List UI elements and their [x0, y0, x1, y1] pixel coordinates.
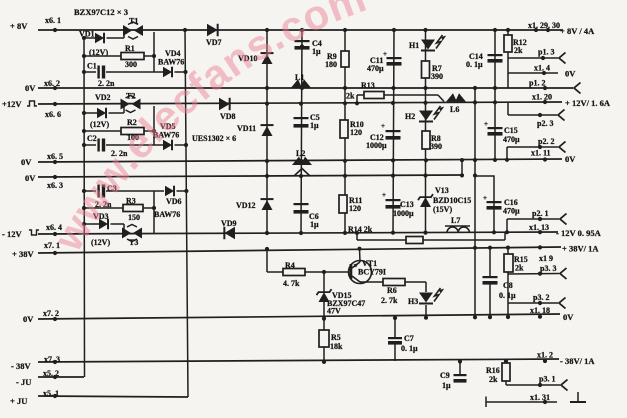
- svg-text:p2. 1: p2. 1: [532, 209, 548, 218]
- wire 0V rail B (x6.5 / x1.11): [38, 159, 562, 162]
- svg-text:R14 2k: R14 2k: [348, 225, 373, 234]
- diode VD3: [99, 219, 108, 230]
- svg-text:+12V: +12V: [2, 99, 22, 109]
- wire p2.3 stub: [507, 102, 509, 115]
- svg-text:R5: R5: [331, 333, 341, 342]
- LED H2: [419, 111, 433, 121]
- svg-text:(12V): (12V): [90, 120, 109, 129]
- svg-text:x1 9: x1 9: [539, 254, 553, 263]
- node x6.4: [53, 232, 57, 236]
- diode VD7: [207, 24, 218, 36]
- svg-text:BZD10C15: BZD10C15: [433, 196, 471, 205]
- svg-text:0V: 0V: [565, 154, 576, 164]
- svg-text:p3. 3: p3. 3: [540, 264, 556, 273]
- transformer T1: [123, 25, 132, 36]
- wire left snubber bus: [83, 38, 86, 377]
- svg-text:2. 7k: 2. 7k: [381, 296, 398, 305]
- svg-text:1μ: 1μ: [312, 47, 321, 56]
- svg-text:1000μ: 1000μ: [366, 141, 387, 150]
- wire C16 branch: [475, 176, 494, 233]
- connector p1.3: [559, 53, 566, 64]
- svg-text:0V: 0V: [23, 314, 34, 324]
- svg-text:BCY79I: BCY79I: [358, 268, 386, 277]
- svg-text:+ 8V / 4A: + 8V / 4A: [560, 26, 595, 36]
- connector p1.2: [574, 83, 581, 94]
- wire -12V rail: [38, 232, 558, 234]
- capacitor C9: [454, 374, 467, 376]
- svg-text:BAW76: BAW76: [158, 58, 184, 67]
- svg-text:0V: 0V: [565, 69, 576, 79]
- svg-text:C9: C9: [440, 371, 450, 380]
- wire rectifier bus VD10-VD12: [266, 30, 268, 234]
- resistor R5: [319, 330, 329, 347]
- node x7.1: [53, 251, 57, 255]
- transformer T2: [121, 99, 130, 110]
- svg-text:R16: R16: [486, 366, 500, 375]
- svg-text:L2: L2: [296, 149, 305, 158]
- svg-text:390: 390: [430, 142, 442, 151]
- wire p2.2 stub: [506, 147, 508, 160]
- svg-text:(15V): (15V): [433, 205, 452, 214]
- svg-text:x1. 11: x1. 11: [531, 149, 551, 158]
- svg-text:x1. 20: x1. 20: [532, 93, 552, 102]
- resistor R6: [383, 279, 405, 286]
- wire VD2 branch: [84, 112, 97, 114]
- svg-text:47V: 47V: [327, 307, 341, 316]
- wire -JU rail: [38, 376, 84, 378]
- svg-text:R3: R3: [126, 197, 136, 206]
- svg-text:VD12: VD12: [236, 201, 256, 210]
- wire C2 branch: [84, 144, 96, 146]
- diode VD1: [95, 33, 104, 44]
- svg-text:C15: C15: [504, 126, 518, 135]
- svg-text:VD9: VD9: [221, 219, 237, 228]
- svg-text:470μ: 470μ: [503, 207, 520, 216]
- wire -38V rail: [38, 359, 559, 362]
- svg-text:x6. 6: x6. 6: [45, 110, 61, 119]
- wire R4 branch: [266, 249, 268, 272]
- connector p2.2: [559, 142, 566, 153]
- svg-text:0. 1μ: 0. 1μ: [401, 344, 418, 353]
- svg-text:T1: T1: [129, 17, 138, 26]
- svg-text:VD11: VD11: [237, 124, 256, 133]
- wire cap bus C4-C6: [301, 30, 302, 234]
- wire R2 branch: [84, 130, 121, 132]
- svg-text:+ 38V/ 1A: + 38V/ 1A: [562, 244, 599, 254]
- resistor R3: [123, 205, 143, 212]
- svg-text:0. 1μ: 0. 1μ: [466, 60, 483, 69]
- wire T3 snubber right vertical: [153, 191, 155, 233]
- pulse symbol +12V: [27, 101, 37, 106]
- resistor R11: [339, 195, 347, 213]
- capacitor C16: [487, 201, 502, 203]
- wire p3.1 stub: [505, 359, 507, 363]
- svg-text:p1. 2: p1. 2: [529, 79, 545, 88]
- node x6.3: [53, 175, 57, 179]
- svg-text:x6. 5: x6. 5: [47, 152, 63, 161]
- capacitor C8: [483, 276, 498, 278]
- capacitor C11: [387, 57, 402, 59]
- wire 0V rail A (x6.2 / p1.2): [38, 87, 573, 89]
- svg-text:2k: 2k: [515, 264, 524, 273]
- svg-text:0V: 0V: [25, 173, 36, 183]
- wire p3.2 stub: [508, 302, 558, 304]
- resistor R7: [422, 61, 430, 78]
- svg-text:470μ: 470μ: [367, 64, 384, 73]
- svg-text:- JU: - JU: [16, 377, 31, 387]
- inductor L6: [446, 93, 466, 102]
- resistor R16: [502, 363, 510, 381]
- capacitor C14: [488, 54, 503, 56]
- resistor R14: [406, 237, 423, 244]
- LED H1: [421, 40, 435, 50]
- wire R13 branch: [356, 95, 358, 103]
- diode VD4: [163, 67, 172, 78]
- watermark www.elecfans.com: [77, 6, 379, 254]
- wire C7 branch: [394, 318, 396, 338]
- node x6.6: [53, 102, 57, 106]
- svg-text:1μ: 1μ: [442, 381, 451, 390]
- zener diode VD15: [319, 292, 330, 302]
- svg-text:C8: C8: [503, 281, 513, 290]
- resistor R9: [341, 51, 349, 67]
- capacitor C6: [294, 203, 309, 205]
- wire p1.3 stub: [508, 57, 558, 59]
- svg-text:+: +: [484, 120, 488, 128]
- diode VD6: [165, 186, 174, 197]
- capacitor C3: [97, 185, 99, 198]
- wire C1 branch: [84, 71, 96, 73]
- transformer T3: [122, 228, 131, 239]
- resistor R13: [364, 92, 384, 99]
- svg-text:4. 7k: 4. 7k: [283, 279, 300, 288]
- svg-text:p1. 3: p1. 3: [538, 48, 554, 57]
- diode VD8: [219, 98, 230, 110]
- diode VD11: [262, 126, 273, 136]
- svg-text:1μ: 1μ: [310, 220, 319, 229]
- wire C14-C15 bus: [494, 30, 496, 160]
- resistor R15: [504, 254, 513, 272]
- inductor L2: [292, 157, 312, 166]
- node x5.1: [53, 394, 57, 398]
- wire p3.3 stub: [507, 248, 509, 254]
- svg-text:0V: 0V: [25, 83, 36, 93]
- svg-text:x7. 2: x7. 2: [43, 309, 59, 318]
- svg-text:+ 8V: + 8V: [10, 21, 28, 31]
- diode VD5: [163, 140, 172, 151]
- wire x1.31 stub: [486, 401, 557, 403]
- resistor R4: [283, 269, 305, 276]
- wire R15 to 0V: [507, 274, 509, 314]
- wire 0V rail C (x6.3): [38, 175, 462, 177]
- resistor R12: [504, 35, 512, 52]
- wire C3 branch: [84, 190, 96, 192]
- connector p3.2: [559, 298, 566, 309]
- svg-text:p2. 3: p2. 3: [537, 119, 553, 128]
- svg-text:V13: V13: [435, 186, 449, 195]
- wire +12V rail: [38, 102, 562, 104]
- svg-text:+ 12V/ 1. 6A: + 12V/ 1. 6A: [565, 98, 611, 108]
- svg-text:R1: R1: [125, 44, 135, 53]
- svg-text:UES1302 × 6: UES1302 × 6: [192, 134, 236, 143]
- wire H3 to 0V: [425, 305, 427, 318]
- svg-text:2k: 2k: [489, 375, 498, 384]
- svg-text:18k: 18k: [330, 342, 343, 351]
- svg-text:L7: L7: [451, 216, 460, 225]
- svg-text:x7. 3: x7. 3: [44, 355, 60, 364]
- svg-text:C2: C2: [87, 134, 97, 143]
- capacitor C12: [386, 130, 401, 132]
- svg-text:p2. 2: p2. 2: [538, 137, 554, 146]
- resistor R8: [422, 131, 430, 149]
- wire resistor bus R9-R11: [344, 30, 346, 234]
- svg-text:R6: R6: [387, 286, 397, 295]
- inductor L1: [291, 79, 311, 88]
- svg-text:H3: H3: [408, 297, 418, 306]
- wire R1 branch: [84, 55, 121, 57]
- svg-text:1μ: 1μ: [310, 121, 319, 130]
- diode VD12: [262, 200, 273, 210]
- svg-text:180: 180: [325, 60, 337, 69]
- svg-text:BZX97C12 × 3: BZX97C12 × 3: [74, 7, 128, 17]
- svg-text:x6. 3: x6. 3: [47, 181, 63, 190]
- svg-text:+: +: [483, 194, 487, 202]
- svg-text:- 38V/ 1A: - 38V/ 1A: [560, 356, 595, 366]
- svg-text:0V: 0V: [563, 312, 574, 322]
- wire C8 branch: [489, 248, 491, 276]
- wire +JU rail: [38, 396, 188, 397]
- capacitor C15: [488, 127, 503, 129]
- svg-text:VD1: VD1: [79, 30, 95, 39]
- svg-text:- 12V 0. 95A: - 12V 0. 95A: [556, 228, 602, 238]
- svg-text:+: +: [381, 122, 385, 130]
- svg-text:120: 120: [350, 128, 362, 137]
- svg-text:x1. 4: x1. 4: [534, 64, 550, 73]
- wire R12 jog: [507, 30, 509, 35]
- svg-text:- 12V: - 12V: [2, 229, 22, 239]
- node x6.2: [53, 86, 57, 90]
- svg-text:VD8: VD8: [220, 112, 236, 121]
- wire long 0V bus right: [474, 88, 476, 314]
- wire VD3 branch: [84, 223, 99, 225]
- capacitor C7: [388, 337, 402, 339]
- zener diode V13: [420, 197, 431, 207]
- wire +8V rail: [38, 29, 562, 31]
- pulse symbol -12V: [29, 230, 39, 235]
- svg-text:- 38V: - 38V: [11, 361, 31, 371]
- node x7.2: [53, 317, 57, 321]
- wire 0V rail D (x7.2 / x1.18): [38, 314, 560, 319]
- wire 0V jog vertical: [461, 159, 463, 176]
- capacitor C2: [97, 139, 99, 152]
- wire cap bus C11-C13: [393, 30, 394, 234]
- svg-text:R13: R13: [361, 81, 375, 90]
- wire p2.1 stub: [506, 219, 508, 233]
- node x6.5: [53, 160, 57, 164]
- svg-text:2k: 2k: [514, 46, 523, 55]
- node x5.2: [53, 375, 57, 379]
- svg-text:0. 1μ: 0. 1μ: [499, 291, 516, 300]
- svg-text:+ JU: + JU: [10, 396, 27, 406]
- svg-text:x1. 29. 30: x1. 29. 30: [528, 21, 560, 30]
- svg-text:470μ: 470μ: [503, 135, 520, 144]
- svg-text:x1. 18: x1. 18: [530, 306, 550, 315]
- wire R5 branch: [323, 319, 325, 331]
- svg-text:x6. 1: x6. 1: [45, 16, 61, 25]
- resistor R2: [121, 128, 144, 135]
- svg-text:VD2: VD2: [95, 93, 111, 102]
- svg-text:x6. 2: x6. 2: [44, 79, 60, 88]
- svg-text:2. 2n: 2. 2n: [98, 79, 115, 88]
- svg-text:1000μ: 1000μ: [393, 209, 414, 218]
- junction dots: [183, 28, 187, 32]
- wire +38V rail: [38, 247, 561, 253]
- wire T2 snubber right vertical: [153, 106, 155, 145]
- svg-text:H2: H2: [405, 112, 415, 121]
- ground symbol: [577, 392, 579, 402]
- resistor R10: [340, 120, 348, 138]
- svg-text:VD6: VD6: [166, 197, 182, 206]
- wire VD1 branch: [84, 37, 95, 39]
- diode VD10: [262, 54, 273, 64]
- wire R14 branch: [356, 234, 358, 240]
- resistor R1: [121, 53, 144, 60]
- connector p3.3: [560, 268, 567, 279]
- connector p3.1: [561, 380, 568, 391]
- svg-text:p3. 1: p3. 1: [539, 375, 555, 384]
- svg-text:+ 38V: + 38V: [12, 249, 34, 259]
- svg-text:0V: 0V: [21, 157, 32, 167]
- svg-text:x1. 31: x1. 31: [530, 393, 550, 402]
- wire right snubber bus: [185, 30, 188, 397]
- wire R3 branch: [84, 207, 123, 209]
- node x6.1: [53, 28, 57, 32]
- capacitor C13: [386, 199, 401, 201]
- inductor L7: [447, 227, 469, 233]
- diode VD9: [224, 227, 235, 239]
- svg-text:C1: C1: [87, 62, 97, 71]
- svg-text:T2: T2: [126, 92, 135, 101]
- node x7.3: [53, 360, 57, 364]
- svg-text:+: +: [383, 50, 387, 58]
- svg-text:2k: 2k: [346, 92, 355, 101]
- wire VD15 branch: [323, 272, 325, 292]
- svg-text:p3. 2: p3. 2: [533, 293, 549, 302]
- wire LED bus H1-H2-V13: [425, 30, 427, 234]
- capacitor C4: [295, 40, 310, 42]
- wire R6 branch: [360, 281, 383, 283]
- LED H3: [419, 293, 433, 303]
- svg-text:C7: C7: [404, 334, 414, 343]
- svg-text:150: 150: [128, 213, 140, 222]
- svg-text:L1: L1: [295, 73, 304, 82]
- connector p2.1: [560, 214, 567, 225]
- wire x1.4 stub: [508, 72, 558, 74]
- svg-text:L6: L6: [450, 105, 459, 114]
- svg-text:x1. 2: x1. 2: [537, 351, 553, 360]
- diode VD2: [97, 108, 106, 119]
- wire C9 branch: [459, 360, 461, 375]
- transistor VT1: [349, 261, 372, 284]
- svg-text:+: +: [382, 191, 386, 199]
- svg-text:300: 300: [125, 60, 137, 69]
- svg-text:H1: H1: [409, 41, 419, 50]
- capacitor C5: [294, 117, 309, 119]
- capacitor C1: [97, 66, 99, 79]
- svg-text:BAW76: BAW76: [154, 210, 180, 219]
- svg-text:R4: R4: [285, 261, 295, 270]
- wire T1 snubber right vertical: [153, 32, 155, 72]
- svg-text:120: 120: [349, 204, 361, 213]
- svg-text:T3: T3: [129, 238, 138, 247]
- connector p2.3: [558, 110, 565, 121]
- svg-text:C13: C13: [400, 200, 414, 209]
- svg-text:390: 390: [431, 72, 443, 81]
